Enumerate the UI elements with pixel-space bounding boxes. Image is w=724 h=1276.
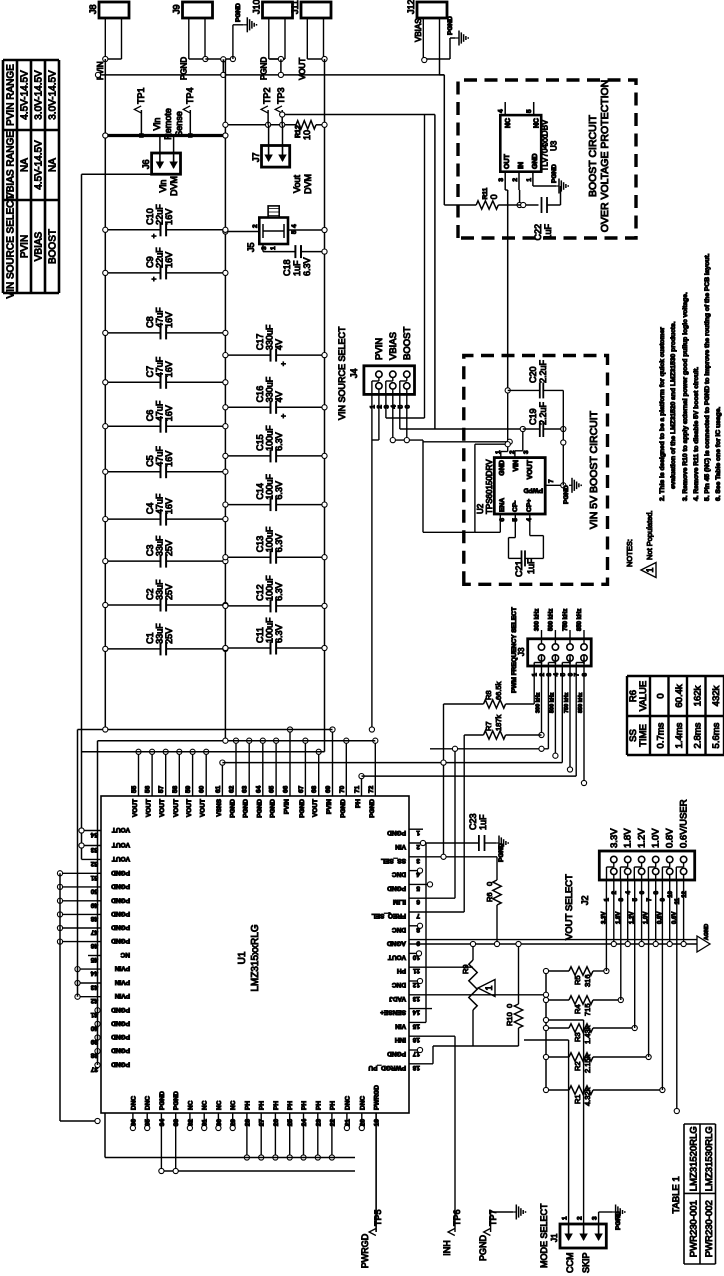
svg-text:16V: 16V (164, 361, 174, 377)
svg-text:PGND: PGND (563, 485, 570, 504)
svg-text:LMZ31520RLG: LMZ31520RLG (689, 1126, 700, 1191)
svg-text:4V: 4V (274, 339, 284, 350)
svg-text:7: 7 (416, 912, 420, 919)
svg-text:1: 1 (270, 246, 277, 250)
svg-text:VADJ: VADJ (389, 995, 406, 1002)
svg-text:60.4k: 60.4k (674, 684, 685, 707)
svg-text:2.8ms: 2.8ms (693, 722, 704, 748)
svg-text:C13: C13 (255, 536, 265, 553)
svg-text:22uF: 22uF (155, 247, 165, 268)
svg-text:316: 316 (583, 974, 592, 987)
svg-text:16V: 16V (164, 252, 174, 268)
svg-text:1: 1 (416, 829, 420, 836)
svg-text:14: 14 (412, 1009, 420, 1016)
svg-text:5. Pin 45 (NC) is connected to: 5. Pin 45 (NC) is connected to PGND to i… (704, 253, 711, 501)
svg-text:PGND: PGND (235, 3, 242, 22)
svg-text:68: 68 (311, 785, 318, 793)
svg-text:27: 27 (259, 1119, 266, 1127)
svg-text:PWRGD: PWRGD (374, 1085, 381, 1110)
svg-text:3: 3 (261, 246, 268, 250)
svg-text:2: 2 (252, 224, 259, 228)
svg-text:evaluation of the LMZ31520 and: evaluation of the LMZ31520 and LMZ31530 … (670, 321, 677, 489)
svg-text:4. Remove R11 to disable 5V bo: 4. Remove R11 to disable 5V boost circui… (693, 367, 700, 501)
svg-text:7: 7 (548, 479, 555, 483)
svg-text:Not Populated.: Not Populated. (645, 510, 654, 560)
svg-text:100uF: 100uF (265, 474, 275, 500)
svg-text:24: 24 (301, 1119, 308, 1127)
svg-text:+: + (150, 276, 159, 281)
svg-text:VIN 5V BOOST CIRCUIT: VIN 5V BOOST CIRCUIT (588, 410, 600, 529)
svg-text:DNC: DNC (392, 926, 406, 933)
svg-text:VOUT: VOUT (112, 826, 130, 833)
svg-text:PGND: PGND (270, 799, 277, 818)
svg-text:R1: R1 (573, 1094, 582, 1104)
svg-text:PVIN: PVIN (115, 965, 130, 972)
svg-text:PGND: PGND (369, 799, 376, 818)
svg-text:1.2V: 1.2V (630, 912, 636, 924)
svg-text:PGND: PGND (111, 1061, 130, 1068)
svg-text:11: 11 (413, 967, 420, 974)
svg-text:NOTES:: NOTES: (625, 539, 634, 567)
svg-text:1.0V: 1.0V (644, 912, 650, 924)
svg-text:AGND: AGND (704, 924, 710, 940)
svg-text:C16: C16 (255, 386, 265, 403)
svg-text:13: 13 (412, 995, 420, 1002)
svg-text:330uF: 330uF (265, 324, 275, 350)
svg-text:PGND: PGND (387, 829, 406, 836)
svg-text:OUT: OUT (504, 154, 511, 170)
svg-text:TP6: TP6 (452, 1209, 462, 1226)
svg-text:1.0V: 1.0V (651, 828, 662, 848)
svg-text:3. Remove R10 to apply externa: 3. Remove R10 to apply external power go… (682, 292, 689, 501)
svg-text:VOUT SELECT: VOUT SELECT (564, 874, 575, 940)
svg-text:16V: 16V (164, 451, 174, 467)
svg-text:C12: C12 (255, 584, 265, 601)
svg-text:6.3V: 6.3V (302, 257, 312, 276)
svg-text:432k: 432k (711, 685, 722, 706)
svg-text:59: 59 (185, 785, 192, 793)
svg-text:LMZ31530RLG: LMZ31530RLG (704, 1126, 715, 1191)
svg-text:VOUT: VOUT (132, 799, 139, 817)
svg-text:3: 3 (523, 450, 530, 454)
svg-text:33uF: 33uF (155, 623, 165, 644)
svg-text:VOUT: VOUT (200, 799, 207, 817)
svg-text:C14: C14 (255, 483, 265, 500)
svg-text:VIN: VIN (395, 843, 406, 850)
svg-text:25: 25 (287, 1119, 294, 1127)
svg-text:C6: C6 (145, 410, 155, 422)
svg-text:9: 9 (416, 940, 420, 947)
svg-text:C7: C7 (145, 366, 155, 378)
svg-text:6.3V: 6.3V (274, 432, 284, 451)
svg-text:J1: J1 (550, 1233, 559, 1242)
svg-text:1uF: 1uF (543, 224, 553, 240)
svg-text:1: 1 (605, 897, 611, 901)
svg-text:INH: INH (395, 1036, 407, 1043)
svg-text:0: 0 (505, 1004, 514, 1008)
svg-text:Sense: Sense (174, 111, 184, 137)
svg-text:PVIN: PVIN (374, 338, 385, 360)
svg-text:1.8V: 1.8V (623, 828, 634, 848)
svg-text:3: 3 (592, 1216, 599, 1220)
svg-text:DVM: DVM (303, 174, 313, 194)
svg-text:C22: C22 (533, 224, 543, 241)
svg-text:100uF: 100uF (265, 425, 275, 451)
svg-text:R5: R5 (573, 975, 582, 985)
svg-text:6.3V: 6.3V (274, 481, 284, 500)
svg-text:15: 15 (412, 1022, 420, 1029)
svg-text:1: 1 (645, 567, 655, 572)
svg-text:5: 5 (397, 405, 404, 409)
svg-text:6.3V: 6.3V (274, 582, 284, 601)
svg-text:2: 2 (416, 843, 420, 850)
svg-text:PGND: PGND (260, 57, 269, 80)
svg-text:26: 26 (273, 1119, 280, 1127)
svg-text:NC: NC (216, 1100, 223, 1110)
svg-text:PGND: PGND (551, 164, 558, 183)
svg-text:VOUT: VOUT (173, 799, 180, 817)
svg-text:R4: R4 (573, 1004, 582, 1014)
svg-text:VBIAS: VBIAS (414, 18, 423, 42)
svg-text:PGND: PGND (173, 1091, 180, 1110)
svg-text:CP-: CP- (512, 500, 519, 512)
svg-text:C18: C18 (282, 259, 292, 276)
svg-text:TP1: TP1 (136, 87, 146, 104)
svg-text:66: 66 (283, 785, 290, 793)
svg-text:0.8V: 0.8V (657, 912, 663, 924)
svg-text:GND: GND (499, 460, 506, 476)
svg-text:330uF: 330uF (265, 376, 275, 402)
svg-text:C9: C9 (145, 256, 155, 268)
svg-text:DNC: DNC (392, 981, 406, 988)
svg-text:62: 62 (229, 785, 236, 793)
svg-text:11: 11 (675, 897, 681, 904)
svg-text:TP2: TP2 (262, 87, 272, 104)
svg-text:6: 6 (640, 890, 646, 894)
svg-text:PH: PH (259, 1101, 266, 1110)
svg-text:60: 60 (199, 785, 206, 793)
svg-text:1.4ms: 1.4ms (674, 722, 685, 748)
svg-text:Remote: Remote (163, 108, 173, 140)
svg-text:LMZ315xxRLG: LMZ315xxRLG (250, 924, 261, 991)
svg-text:4.5V-14.5V: 4.5V-14.5V (20, 70, 31, 120)
svg-text:16V: 16V (164, 405, 174, 421)
svg-text:63: 63 (242, 785, 249, 793)
svg-text:OVER VOLTAGE PROTECTION: OVER VOLTAGE PROTECTION (599, 80, 611, 232)
svg-text:NC: NC (120, 951, 130, 958)
svg-text:J6: J6 (141, 159, 151, 169)
svg-text:23: 23 (315, 1119, 322, 1127)
svg-text:TP3: TP3 (276, 87, 286, 104)
svg-text:PWR230-002: PWR230-002 (704, 1200, 715, 1257)
svg-text:47uF: 47uF (155, 307, 165, 328)
svg-text:10: 10 (668, 890, 674, 897)
svg-text:65: 65 (269, 785, 276, 793)
svg-text:VBIAS: VBIAS (34, 231, 45, 261)
svg-text:CP+: CP+ (526, 499, 533, 512)
svg-text:8: 8 (654, 890, 660, 894)
svg-text:J7: J7 (251, 152, 261, 162)
svg-text:2.15k: 2.15k (583, 1054, 592, 1073)
svg-text:PGND: PGND (387, 1050, 406, 1057)
svg-text:NC: NC (202, 1100, 209, 1110)
svg-text:PGND: PGND (111, 1033, 130, 1040)
svg-text:PGND: PGND (299, 799, 306, 818)
svg-text:300 kHz: 300 kHz (536, 692, 542, 713)
svg-text:1.2V: 1.2V (637, 828, 648, 848)
svg-text:R6: R6 (485, 892, 494, 902)
svg-text:PGND: PGND (111, 869, 130, 876)
svg-text:0: 0 (489, 194, 499, 199)
svg-text:PGND: PGND (111, 896, 130, 903)
svg-text:J5: J5 (246, 242, 256, 252)
svg-text:1uF: 1uF (478, 814, 488, 830)
svg-text:25V: 25V (164, 628, 174, 644)
svg-text:100uF: 100uF (265, 575, 275, 601)
svg-text:TP4: TP4 (185, 87, 195, 104)
svg-text:SS_SEL: SS_SEL (381, 857, 406, 864)
svg-text:PVIN: PVIN (115, 992, 130, 999)
svg-text:500 kHz: 500 kHz (548, 609, 554, 631)
svg-text:1: 1 (369, 405, 376, 409)
svg-text:PGND: PGND (111, 937, 130, 944)
svg-text:850 kHz: 850 kHz (577, 609, 583, 631)
svg-text:C17: C17 (255, 334, 265, 351)
svg-text:DNC: DNC (145, 1096, 152, 1110)
svg-text:DNC: DNC (344, 1096, 351, 1110)
svg-text:PVIN: PVIN (20, 235, 31, 258)
svg-text:57: 57 (158, 785, 165, 793)
svg-text:NC: NC (187, 1100, 194, 1110)
svg-text:DNC: DNC (359, 1096, 366, 1110)
svg-text:Vout: Vout (292, 174, 302, 193)
svg-text:1.8V: 1.8V (616, 912, 622, 924)
svg-text:4: 4 (498, 109, 505, 113)
svg-text:500 kHz: 500 kHz (549, 692, 555, 713)
svg-text:22uF: 22uF (155, 204, 165, 225)
svg-text:7: 7 (647, 897, 653, 901)
svg-text:PH: PH (355, 799, 362, 808)
svg-text:VIN SOURCE SELECT: VIN SOURCE SELECT (337, 326, 347, 420)
svg-text:PH: PH (329, 1101, 336, 1110)
svg-text:SKIP: SKIP (581, 1252, 591, 1273)
svg-text:PGND: PGND (498, 843, 505, 862)
svg-text:C3: C3 (145, 545, 155, 557)
svg-text:PH: PH (287, 1101, 294, 1110)
svg-text:3.0V-14.5V: 3.0V-14.5V (48, 70, 59, 120)
svg-text:69: 69 (325, 785, 332, 793)
svg-text:NC: NC (505, 118, 512, 128)
svg-text:IN: IN (518, 162, 525, 169)
svg-text:FREQ_SEL: FREQ_SEL (372, 912, 406, 919)
svg-text:PGND: PGND (230, 799, 237, 818)
svg-text:1.43k: 1.43k (583, 1025, 592, 1044)
svg-text:2: 2 (612, 890, 618, 894)
svg-text:+: + (279, 361, 288, 366)
svg-text:R10: R10 (505, 1012, 514, 1026)
svg-text:+: + (279, 413, 288, 418)
svg-text:25V: 25V (164, 584, 174, 600)
svg-text:3: 3 (619, 897, 625, 901)
svg-text:PGND: PGND (243, 799, 250, 818)
svg-text:47uF: 47uF (155, 446, 165, 467)
svg-text:64: 64 (255, 785, 262, 793)
svg-text:300 kHz: 300 kHz (535, 609, 541, 631)
svg-text:VBIAS RANGE: VBIAS RANGE (6, 131, 17, 199)
svg-text:C1: C1 (145, 632, 155, 644)
svg-text:BOOST: BOOST (402, 327, 413, 360)
svg-text:NC: NC (230, 1100, 237, 1110)
svg-text:VOUT: VOUT (527, 459, 534, 479)
svg-text:TABLE 1: TABLE 1 (671, 1176, 682, 1213)
svg-text:10: 10 (302, 130, 312, 140)
svg-text:+: + (150, 233, 159, 238)
svg-text:67: 67 (298, 785, 305, 793)
svg-text:56: 56 (145, 785, 152, 793)
svg-text:PH: PH (301, 1101, 308, 1110)
svg-text:J11: J11 (290, 0, 300, 14)
svg-text:TIME: TIME (638, 724, 649, 747)
svg-text:162k: 162k (693, 685, 704, 706)
svg-text:C23: C23 (468, 813, 478, 830)
svg-text:PH: PH (244, 1101, 251, 1110)
svg-text:TLV704xxDBV: TLV704xxDBV (541, 119, 550, 172)
svg-text:2. This is designed to be a pl: 2. This is designed to be a platform for… (659, 327, 666, 501)
svg-text:VOUT: VOUT (112, 855, 130, 862)
svg-text:3: 3 (498, 178, 505, 182)
svg-text:C19: C19 (528, 408, 538, 425)
svg-text:VOUT: VOUT (298, 58, 307, 80)
svg-text:5: 5 (416, 884, 420, 891)
svg-text:0.6V/USER: 0.6V/USER (679, 799, 690, 848)
svg-text:PGND: PGND (478, 1235, 488, 1262)
svg-text:PWRGD_PU: PWRGD_PU (368, 1064, 406, 1071)
svg-text:VALUE: VALUE (638, 681, 649, 711)
svg-text:33uF: 33uF (155, 579, 165, 600)
svg-text:72: 72 (368, 785, 375, 793)
svg-text:4.5V-14.5V: 4.5V-14.5V (34, 140, 45, 190)
svg-text:R8: R8 (484, 690, 493, 700)
svg-text:1: 1 (484, 985, 494, 990)
svg-text:5: 5 (633, 897, 639, 901)
svg-text:INH: INH (442, 1240, 452, 1256)
svg-text:C11: C11 (255, 627, 265, 643)
svg-text:J3: J3 (517, 647, 526, 656)
svg-text:58: 58 (172, 785, 179, 793)
svg-text:187k: 187k (494, 714, 503, 731)
svg-text:3.0V-14.5V: 3.0V-14.5V (34, 70, 45, 120)
svg-text:PWPD: PWPD (523, 487, 543, 494)
svg-text:PVIN: PVIN (115, 979, 130, 986)
svg-text:VSNS: VSNS (216, 798, 223, 816)
svg-text:100uF: 100uF (265, 617, 275, 643)
svg-text:J2: J2 (580, 895, 590, 905)
svg-text:6. See Table one for IC usage.: 6. See Table one for IC usage. (715, 407, 722, 501)
svg-text:J4: J4 (349, 368, 359, 378)
svg-text:47uF: 47uF (155, 400, 165, 421)
svg-text:16: 16 (412, 1036, 420, 1043)
svg-text:PGND: PGND (447, 16, 454, 35)
svg-text:70: 70 (339, 785, 346, 793)
svg-text:VOUT: VOUT (388, 953, 406, 960)
svg-text:VOUT: VOUT (186, 799, 193, 817)
svg-text:CCM: CCM (565, 1253, 575, 1274)
svg-text:18: 18 (412, 1064, 420, 1071)
svg-text:1: 1 (526, 178, 533, 182)
svg-text:4: 4 (291, 224, 298, 228)
svg-text:PGND: PGND (111, 910, 130, 917)
svg-text:3.3V: 3.3V (601, 912, 607, 924)
svg-text:33uF: 33uF (155, 535, 165, 556)
svg-text:PVIN: PVIN (284, 799, 291, 814)
svg-text:0: 0 (656, 693, 667, 698)
svg-text:19: 19 (374, 1119, 381, 1127)
svg-text:28: 28 (244, 1119, 251, 1127)
svg-text:0.7ms: 0.7ms (656, 722, 667, 748)
svg-text:C8: C8 (145, 316, 155, 328)
svg-text:22: 22 (329, 1119, 336, 1127)
svg-text:4: 4 (390, 405, 397, 409)
svg-text:4.32k: 4.32k (583, 1087, 592, 1106)
svg-text:PGND: PGND (180, 57, 189, 80)
svg-text:6.3V: 6.3V (274, 624, 284, 643)
svg-text:VBIAS: VBIAS (388, 332, 399, 360)
svg-text:33: 33 (173, 1119, 180, 1127)
svg-text:R3: R3 (573, 1032, 582, 1042)
svg-text:4: 4 (626, 890, 632, 894)
svg-text:1: 1 (562, 1216, 569, 1220)
svg-text:3: 3 (416, 857, 420, 864)
svg-text:NA: NA (48, 158, 59, 172)
svg-text:J8: J8 (88, 4, 98, 14)
svg-text:J10: J10 (252, 0, 262, 14)
svg-text:U2: U2 (476, 503, 485, 514)
svg-text:VIN: VIN (513, 460, 520, 472)
svg-text:DVM: DVM (169, 176, 179, 196)
svg-text:VOUT: VOUT (159, 799, 166, 817)
svg-text:DNC: DNC (392, 871, 406, 878)
svg-text:3.3V: 3.3V (609, 828, 620, 848)
svg-text:PGND: PGND (387, 884, 406, 891)
svg-text:R12: R12 (295, 125, 302, 138)
svg-text:71: 71 (354, 785, 361, 793)
svg-text:6: 6 (416, 898, 420, 905)
svg-text:R2: R2 (573, 1061, 582, 1071)
svg-text:PWR230-001: PWR230-001 (689, 1200, 700, 1257)
svg-text:PH: PH (315, 1101, 322, 1110)
svg-text:ILIM: ILIM (393, 898, 406, 905)
svg-text:C20: C20 (528, 366, 538, 383)
svg-text:850 kHz: 850 kHz (578, 692, 584, 713)
svg-text:PVIN: PVIN (326, 799, 333, 814)
svg-text:12: 12 (682, 890, 688, 897)
svg-text:PH: PH (273, 1101, 280, 1110)
svg-text:ENA: ENA (499, 498, 506, 512)
svg-text:U3: U3 (550, 140, 559, 151)
svg-text:750 kHz: 750 kHz (564, 692, 570, 713)
svg-text:47uF: 47uF (155, 493, 165, 514)
svg-text:PGND: PGND (256, 799, 263, 818)
svg-text:GND: GND (532, 153, 539, 169)
svg-text:PGND: PGND (111, 1006, 130, 1013)
svg-text:BOOST: BOOST (48, 229, 59, 264)
svg-text:PH: PH (397, 967, 406, 974)
svg-text:C5: C5 (145, 455, 155, 467)
svg-text:PGND: PGND (111, 1019, 130, 1026)
svg-text:Vin: Vin (152, 118, 162, 131)
svg-text:PGND: PGND (111, 1047, 130, 1054)
svg-text:PGND: PGND (615, 1211, 622, 1230)
